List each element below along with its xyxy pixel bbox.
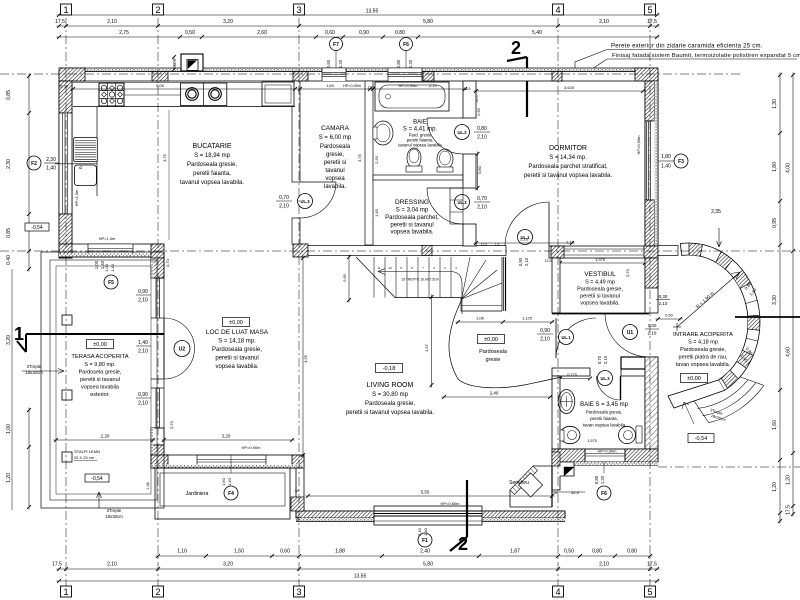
kitchen left radiator: [74, 138, 98, 162]
svg-text:DORMITOR: DORMITOR: [549, 145, 587, 152]
svg-text:17,5: 17,5: [52, 562, 62, 568]
svg-text:12,5: 12,5: [481, 243, 487, 247]
svg-text:1,40: 1,40: [661, 164, 671, 170]
kitchen interior dim 5,05: [71, 88, 298, 90]
pier hatch at dining top-left corner: [151, 244, 164, 267]
svg-text:12,5: 12,5: [475, 96, 479, 103]
svg-text:F3: F3: [678, 159, 684, 165]
svg-text:F6: F6: [403, 42, 409, 48]
dims 1,06 1,125 below stairs: [456, 321, 555, 323]
svg-text:Jardiniera: Jardiniera: [186, 491, 209, 497]
svg-text:Pardoseala gresie,: Pardoseala gresie,: [187, 162, 237, 168]
grid bubble 1 top: [61, 4, 72, 15]
small baie toilet: [560, 426, 580, 443]
svg-text:2: 2: [155, 5, 160, 15]
kitchen left sink: [55, 163, 97, 165]
svg-text:17,5: 17,5: [647, 19, 657, 25]
elevation -0,54 left: [25, 223, 49, 231]
right exterior wall (dormitor): [645, 81, 658, 258]
svg-text:1,20: 1,20: [338, 59, 343, 68]
svg-text:HP=0,90m: HP=0,90m: [597, 449, 617, 454]
3 trepte label bottom: [97, 492, 102, 508]
door UL.2 baie leaf and arc: [427, 117, 463, 119]
svg-text:-0,54: -0,54: [695, 436, 708, 442]
stair treads straight flight: [373, 257, 375, 298]
terrace outline inner: [56, 266, 151, 494]
vestibul right wall above door U1: [645, 258, 658, 313]
small baie bidet: [619, 426, 636, 443]
svg-text:0,70: 0,70: [625, 268, 630, 277]
svg-text:13,55: 13,55: [366, 9, 379, 15]
grid axis line 5 (dashed): [649, 18, 651, 586]
svg-text:2: 2: [155, 587, 160, 597]
dim 2,20 terrace / 3,20 dining: [54, 439, 156, 441]
svg-text:2,18: 2,18: [520, 237, 529, 242]
stair well edge double line: [503, 257, 505, 311]
svg-text:vopsea lavabila.: vopsea lavabila.: [215, 364, 258, 370]
svg-text:±0,00: ±0,00: [484, 337, 498, 343]
stair winder fan: [462, 257, 470, 299]
svg-text:peretii faianta,: peretii faianta,: [193, 171, 231, 177]
svg-text:Finisaj fatada sistem Baumit,: Finisaj fatada sistem Baumit, termoizola…: [612, 53, 800, 59]
svg-text:1,87: 1,87: [510, 549, 520, 555]
svg-text:5,55: 5,55: [421, 490, 430, 495]
elevation -0,54 terrace bottom: [85, 474, 109, 482]
bottom dim row openings: [156, 555, 653, 557]
svg-text:F2: F2: [31, 161, 37, 167]
svg-text:0,50: 0,50: [665, 313, 674, 318]
svg-text:4,60: 4,60: [786, 347, 792, 357]
svg-text:HP=1,0m: HP=1,0m: [74, 189, 79, 206]
horizontal axis line through top wall: [0, 73, 742, 75]
svg-text:2,10: 2,10: [477, 205, 487, 211]
grid bubble 2 top: [153, 4, 164, 15]
svg-text:UL.1: UL.1: [561, 335, 571, 340]
svg-text:0,50: 0,50: [185, 30, 195, 36]
section mark 2 bottom: [466, 480, 468, 537]
svg-text:S = 4,49 mp: S = 4,49 mp: [585, 280, 615, 286]
pier hatch vestibul top-right corner: [644, 246, 658, 258]
svg-text:VESTIBUL: VESTIBUL: [584, 271, 616, 278]
svg-text:3,30: 3,30: [772, 295, 778, 305]
left wall pier hatch bottom: [59, 214, 72, 258]
svg-text:0,85: 0,85: [6, 228, 12, 238]
svg-text:Semineu: Semineu: [509, 480, 529, 486]
svg-text:3,20: 3,20: [6, 335, 12, 345]
svg-text:gresie: gresie: [486, 357, 501, 363]
wall kitchen/camara vertical: [292, 81, 300, 182]
svg-text:0,80: 0,80: [477, 126, 487, 132]
door label UL.3 small baie: [598, 371, 613, 386]
svg-text:0,85: 0,85: [6, 90, 12, 100]
grid bubble 3 bottom: [294, 586, 305, 597]
vestibul left wall: [552, 258, 560, 313]
grid bubble 2 bottom: [153, 586, 164, 597]
pier hatch in stair top wall: [422, 246, 432, 256]
window bubble F1: [418, 533, 432, 547]
svg-text:INTRARE ACOPERITA: INTRARE ACOPERITA: [673, 332, 733, 338]
small baie sink: [558, 390, 575, 414]
black triangle corner marker: [564, 467, 574, 476]
svg-text:Pardoseala gresie,: Pardoseala gresie,: [577, 287, 623, 293]
svg-text:F4: F4: [228, 491, 234, 497]
dining bottom wall insulation band: [151, 465, 304, 469]
svg-text:0,60: 0,60: [325, 30, 335, 36]
svg-text:S = 14,34 mp.: S = 14,34 mp.: [549, 155, 587, 161]
svg-text:1,10: 1,10: [177, 549, 187, 555]
svg-text:1,00: 1,00: [94, 260, 99, 269]
svg-text:3: 3: [296, 587, 301, 597]
svg-text:4: 4: [555, 5, 560, 15]
svg-text:2: 2: [511, 38, 521, 58]
svg-text:12,5: 12,5: [464, 87, 471, 91]
svg-text:4: 4: [555, 587, 560, 597]
dining left wall lower segment: [151, 428, 164, 445]
svg-text:gresie,: gresie,: [326, 152, 344, 158]
svg-text:3,20: 3,20: [222, 434, 231, 439]
svg-text:peretii piatra de rau,: peretii piatra de rau,: [679, 355, 728, 361]
svg-text:DRESSING: DRESSING: [395, 199, 429, 206]
svg-text:STALPI LEMN: STALPI LEMN: [74, 449, 100, 454]
svg-text:exterior.: exterior.: [90, 392, 110, 398]
section line right heavy: [735, 316, 800, 318]
svg-text:S = 9,80 mp.: S = 9,80 mp.: [84, 362, 116, 368]
svg-text:Pardoseala parchet,: Pardoseala parchet,: [385, 215, 439, 221]
pier hatch grid3 at dining/living top: [293, 244, 308, 257]
wall pier hatch right of baie window: [423, 72, 434, 82]
svg-text:0,40: 0,40: [6, 255, 12, 265]
svg-text:1,975: 1,975: [595, 257, 606, 262]
horizontal axis line right lower: [658, 466, 800, 468]
svg-text:HP=1,0m: HP=1,0m: [99, 236, 116, 241]
dressing shelves right wall: [450, 188, 463, 224]
svg-text:LIVING ROOM: LIVING ROOM: [367, 382, 414, 389]
svg-text:5: 5: [647, 587, 652, 597]
svg-text:1,40: 1,40: [110, 263, 115, 272]
svg-text:2,10: 2,10: [659, 301, 668, 306]
svg-text:S = 14,18 mp.: S = 14,18 mp.: [218, 339, 256, 345]
door UL.3 dressing leaf and arc: [427, 187, 463, 189]
svg-text:tavan vopsea lavabila.: tavan vopsea lavabila.: [676, 362, 731, 368]
dim 0,90 stairs left: [348, 255, 350, 303]
room label LOC DE LUAT MASA: [223, 318, 250, 327]
svg-text:11: 11: [378, 266, 381, 270]
svg-text:3,75: 3,75: [357, 153, 362, 162]
svg-text:1,60: 1,60: [772, 420, 778, 430]
wall camara/dressing bottom (stair top wall): [308, 246, 506, 256]
svg-text:13,55: 13,55: [354, 574, 367, 580]
left wall stipple outer band: [59, 81, 63, 258]
svg-text:1,125: 1,125: [522, 316, 533, 321]
small baie bottom wall: [552, 449, 658, 462]
svg-text:UL.2: UL.2: [457, 130, 467, 135]
svg-text:2,10: 2,10: [477, 135, 487, 141]
left dim chain lower 3,20 / 1,00 / 1,20: [28, 408, 30, 510]
right wall hatch top corner: [645, 81, 655, 121]
svg-text:S = 3,04 mp: S = 3,04 mp: [396, 208, 429, 214]
fireplace corner pier hatch: [552, 452, 560, 466]
svg-text:1,06: 1,06: [476, 316, 485, 321]
fireplace flue diagonal hatched strip: [510, 466, 538, 495]
svg-text:±0,00: ±0,00: [93, 342, 107, 348]
svg-text:UL.3: UL.3: [600, 376, 610, 381]
section mark 1 left: [26, 333, 164, 335]
kitchen bottom window HP=1,0m: [88, 244, 133, 257]
svg-text:BAIE: BAIE: [413, 120, 427, 126]
baie pedestal sink: [373, 121, 393, 145]
living bottom wall hatched band: [296, 511, 565, 518]
svg-text:3Trepte: 3Trepte: [107, 508, 122, 513]
elevation -0,54 entrance: [688, 434, 714, 443]
window bubble F7 top: [330, 38, 343, 51]
svg-text:0,95: 0,95: [772, 218, 778, 228]
grid axis line 4 (dashed): [557, 18, 559, 586]
wall camara/baie vertical: [365, 81, 373, 245]
window bubble F2 left: [27, 156, 41, 170]
svg-text:5,40: 5,40: [532, 30, 542, 36]
door label U2: [174, 341, 190, 357]
vestibul threshold heavy line and U1 open leaf: [552, 313, 649, 315]
svg-text:1,40: 1,40: [227, 477, 232, 486]
svg-text:1,20: 1,20: [772, 482, 778, 492]
svg-text:-0,18: -0,18: [383, 366, 396, 372]
small baie top wall: [552, 368, 590, 376]
stair walking line with arrow: [378, 272, 462, 315]
bathtub: [375, 82, 449, 111]
svg-text:2,10: 2,10: [138, 401, 148, 407]
svg-text:1: 1: [63, 5, 68, 15]
svg-text:0,30: 0,30: [659, 294, 668, 299]
step corner wall below small baie: [552, 462, 574, 490]
svg-text:UL.3: UL.3: [300, 199, 310, 204]
svg-text:2,30: 2,30: [46, 157, 56, 163]
svg-text:2,10: 2,10: [429, 83, 438, 88]
svg-text:Pardoseala gresie,: Pardoseala gresie,: [365, 401, 415, 407]
svg-text:1,00: 1,00: [6, 424, 12, 434]
door UL.1 vestibul leaf and arc: [555, 318, 557, 358]
kitchen stove: [99, 83, 124, 106]
svg-text:tavan vopsea lavabila: tavan vopsea lavabila: [583, 423, 626, 428]
svg-text:0,80: 0,80: [592, 549, 602, 555]
svg-text:0,90: 0,90: [138, 289, 148, 295]
top dim row total 13,55: [57, 14, 660, 16]
baie bidet: [437, 149, 453, 169]
right wall stipple outer: [655, 81, 659, 258]
svg-text:0,90: 0,90: [540, 328, 550, 334]
svg-text:lavabila.: lavabila.: [324, 184, 346, 190]
svg-text:3Trepte: 3Trepte: [27, 364, 42, 369]
window camara top (F7) in top wall: [322, 68, 346, 81]
svg-text:17,5: 17,5: [647, 562, 657, 568]
svg-text:BAIE S = 3,45 mp: BAIE S = 3,45 mp: [580, 402, 629, 408]
svg-text:S = 4,18 mp: S = 4,18 mp: [688, 340, 718, 346]
svg-text:0,70: 0,70: [165, 258, 170, 267]
grid bubble 1 bottom: [61, 586, 72, 597]
baie interior dim: [371, 88, 468, 90]
right wall window F3 band: [645, 121, 655, 200]
dim 1,975 vestibul top: [558, 262, 648, 264]
dining bottom wall: [151, 455, 304, 468]
svg-text:BUCATARIE: BUCATARIE: [192, 143, 231, 150]
wall pier hatch grid5 corner: [635, 68, 658, 81]
grid bubble 5 top: [645, 4, 656, 15]
svg-text:vopsea lavabila.: vopsea lavabila.: [390, 230, 433, 236]
bottom dim row axes: [57, 568, 660, 570]
svg-text:tavanul vopsea lavabila.: tavanul vopsea lavabila.: [180, 180, 244, 186]
svg-text:32,5: 32,5: [173, 59, 177, 66]
svg-text:2,10: 2,10: [599, 19, 609, 25]
wall pier hatch grid2: [152, 72, 168, 82]
svg-text:peretii si tavanul: peretii si tavanul: [215, 356, 258, 362]
svg-text:2,40: 2,40: [420, 549, 430, 555]
top exterior wall masonry band: [59, 72, 658, 82]
svg-text:2,10: 2,10: [138, 298, 148, 304]
svg-text:peretii si: peretii si: [324, 160, 346, 166]
horizontal axis line middle band: [0, 250, 800, 252]
svg-text:tavanul vopsea lavabila: tavanul vopsea lavabila: [398, 143, 442, 148]
leader lines from notes to wall: [575, 50, 607, 72]
svg-text:2,40: 2,40: [490, 391, 499, 396]
svg-text:1,80: 1,80: [661, 154, 671, 160]
svg-text:Pardosela gresie,: Pardosela gresie,: [79, 370, 122, 376]
svg-text:1,20: 1,20: [6, 473, 12, 483]
wall pier hatch grid3: [293, 72, 308, 82]
svg-text:HP=0,60m: HP=0,60m: [440, 501, 460, 506]
svg-text:2,10: 2,10: [279, 204, 289, 210]
right dim chain inner 1,30 / 1,80 / 0,95 / 3,30 / 1,60 / 1,20: [779, 73, 781, 524]
dim 5,55 living: [306, 495, 555, 497]
svg-text:HP=0,90m: HP=0,90m: [343, 84, 361, 88]
small baie right wall: [645, 357, 658, 449]
svg-text:Pardoseala gresie,: Pardoseala gresie,: [680, 347, 726, 353]
dining left wall stipple strips: [151, 258, 154, 278]
svg-text:TERASA ACOPERITA: TERASA ACOPERITA: [71, 354, 128, 360]
svg-text:peretii faianta,: peretii faianta,: [590, 416, 618, 421]
top exterior wall insulation band: [59, 68, 658, 72]
door label U1: [623, 325, 638, 340]
grid axis line 1 (dashed): [65, 18, 67, 586]
svg-text:HP=0,90m: HP=0,90m: [636, 135, 641, 155]
dormitor bottom wall right part: [549, 246, 658, 258]
svg-text:S = 6,00 mp: S = 6,00 mp: [319, 135, 352, 141]
right dim chain outer 4,00 / 4,60 / 1,20 / 17,5: [792, 73, 794, 517]
svg-text:5,80: 5,80: [423, 19, 433, 25]
dim 2,18 dormitor bottom + 1,125: [474, 242, 575, 244]
svg-text:0,70: 0,70: [169, 420, 174, 429]
svg-text:F1: F1: [422, 538, 428, 544]
svg-text:1,40: 1,40: [100, 260, 105, 269]
svg-text:2,10: 2,10: [107, 562, 117, 568]
svg-text:1,40: 1,40: [138, 340, 148, 346]
kitchen counter lines: [73, 106, 295, 108]
stair lower landing treads: [461, 305, 502, 307]
door UL.1 dormitor leaf and arc: [548, 202, 550, 246]
svg-text:0,90: 0,90: [359, 30, 369, 36]
svg-text:peretii si tavanul: peretii si tavanul: [390, 223, 433, 229]
svg-text:±0,00: ±0,00: [229, 320, 243, 326]
window baie top (F6) in top wall: [388, 68, 422, 81]
svg-text:17,5: 17,5: [55, 19, 65, 25]
svg-text:0,90: 0,90: [138, 392, 148, 398]
svg-text:2,10: 2,10: [138, 349, 148, 355]
kitchen fridge: [262, 82, 294, 106]
hatch pier right of jardiniera lower: [291, 497, 304, 511]
door label UL.1 vestibul: [559, 330, 574, 345]
grid bubble 4 top: [553, 4, 564, 15]
svg-text:5,05: 5,05: [156, 83, 165, 88]
svg-text:peretii si tavanul: peretii si tavanul: [80, 377, 120, 383]
dining left wall upper pier: [151, 258, 164, 278]
entrance radius annotation R=1,90m: [677, 272, 740, 327]
terrace wood post 3: [62, 452, 72, 462]
grid bubble 3 top: [294, 4, 305, 15]
living bottom window bay: [374, 506, 482, 525]
dining left wall window 0,90 lower: [155, 388, 157, 428]
svg-text:12,5: 12,5: [545, 259, 552, 263]
svg-text:2,30: 2,30: [6, 159, 12, 169]
svg-text:1,40: 1,40: [46, 166, 56, 172]
svg-text:HP=0,90m: HP=0,90m: [241, 445, 261, 450]
svg-text:2,40: 2,40: [417, 527, 422, 536]
svg-text:LOC DE LUAT MASA: LOC DE LUAT MASA: [206, 329, 269, 336]
svg-text:peretii si tavanul vopsea lava: peretii si tavanul vopsea lavabila.: [346, 410, 434, 416]
svg-text:0,80: 0,80: [627, 549, 637, 555]
svg-text:0,70: 0,70: [279, 195, 289, 201]
svg-text:HP=0,90m: HP=0,90m: [398, 83, 418, 88]
svg-text:±0,00: ±0,00: [687, 376, 701, 382]
svg-text:vopsea: vopsea: [325, 176, 345, 182]
svg-text:18x30cm: 18x30cm: [105, 514, 123, 519]
vestibul niche box: [621, 357, 646, 369]
svg-text:1,20: 1,20: [408, 59, 413, 68]
svg-text:2,20: 2,20: [101, 434, 110, 439]
svg-text:UL.3: UL.3: [457, 200, 467, 205]
svg-text:1,88: 1,88: [335, 549, 345, 555]
kitchen bottom wall insulation band: [59, 254, 163, 258]
svg-text:Pardoseala parchet stratificat: Pardoseala parchet stratificat,: [528, 164, 608, 170]
svg-text:5: 5: [647, 5, 652, 15]
svg-text:CAMARA: CAMARA: [321, 125, 349, 132]
svg-text:peretii si tavanul vopsea lava: peretii si tavanul vopsea lavabila.: [524, 173, 612, 179]
svg-text:2,10: 2,10: [648, 331, 657, 336]
section mark 2 top: [507, 57, 527, 61]
entrance wall radial joints: [688, 243, 690, 255]
svg-text:1,50: 1,50: [221, 477, 226, 486]
svg-text:0,70: 0,70: [477, 196, 487, 202]
floor boundary curve living room: [449, 299, 562, 388]
svg-text:3: 3: [296, 5, 301, 15]
chimney vent symbol above top wall: [181, 54, 203, 71]
entrance curved wall band: [680, 243, 760, 390]
svg-text:0,50: 0,50: [564, 549, 574, 555]
door label UL.3 dressing: [455, 195, 470, 210]
top dim row axes 17,5 / 2,10 / 3,20 / 5,80 / 2,10 / 17,5: [57, 25, 660, 27]
svg-text:1,36: 1,36: [146, 482, 150, 489]
svg-text:3,20: 3,20: [223, 562, 233, 568]
svg-text:3,625: 3,625: [564, 85, 575, 90]
wall pier hatch grid1 corner: [59, 68, 85, 81]
door label UL.1 dormitor: [518, 230, 533, 245]
room label TERASA ACOPERITA: [87, 340, 114, 349]
svg-text:1,30: 1,30: [772, 99, 778, 109]
vestibul top wall opening lines: [564, 248, 644, 250]
svg-text:0,90: 0,90: [518, 257, 523, 266]
svg-text:1,60: 1,60: [326, 83, 335, 88]
svg-text:peretii si tavanul: peretii si tavanul: [580, 294, 620, 300]
svg-text:Pardoseala gresie,: Pardoseala gresie,: [586, 410, 623, 415]
dim 0,50 entrance: [656, 318, 683, 320]
left wall pier hatch top: [59, 81, 72, 113]
